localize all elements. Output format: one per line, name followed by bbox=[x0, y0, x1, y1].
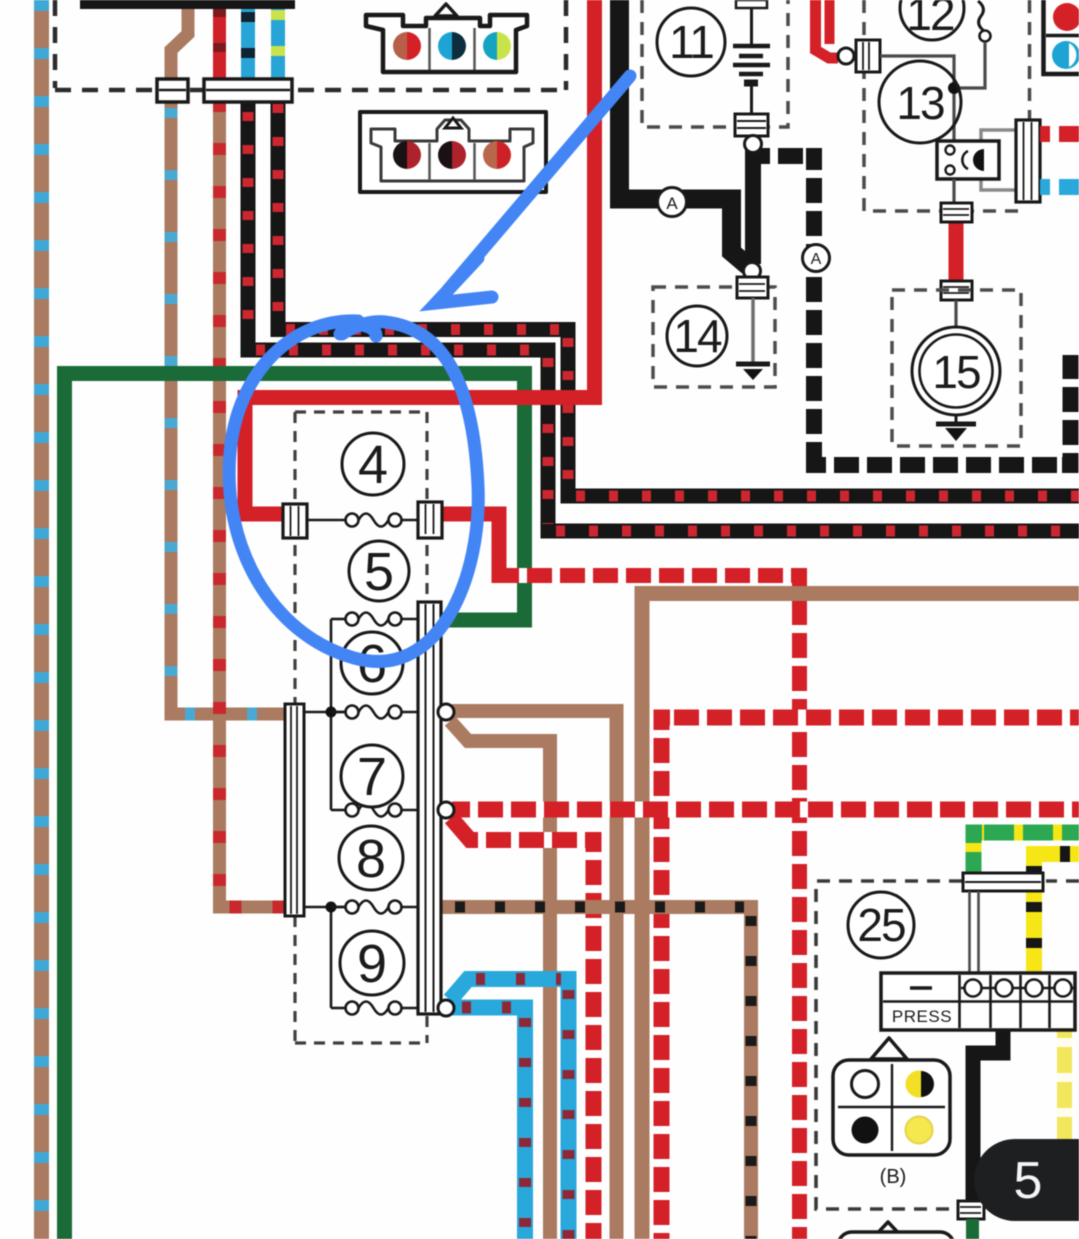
inline connector (large) on boundary bbox=[204, 79, 292, 102]
lamp white (B top-left) bbox=[852, 1071, 879, 1098]
wire black/red B (outer L, to long horizontal run y523) bbox=[248, 95, 1079, 531]
pin C1-1 red/brown bbox=[393, 32, 421, 60]
svg-text:PRESS: PRESS bbox=[892, 1007, 952, 1026]
component circle 6 bbox=[341, 632, 403, 694]
wire brown/black from fuse bus (down right) bbox=[440, 907, 751, 1239]
battery 11 top lead connector bbox=[736, 0, 767, 8]
pin C1-3 blue/yellow-green bbox=[483, 32, 511, 60]
wire black/white checkered (from node to right edge, up) bbox=[760, 156, 1071, 465]
lamp black (B bottom-left) bbox=[852, 1117, 879, 1144]
wire black (25 block to lower connector) bbox=[973, 1030, 1003, 1202]
crimp connector (13 lower) bbox=[941, 203, 972, 222]
crimp connector (15 upper) bbox=[941, 281, 972, 300]
fuse F4 element bbox=[307, 514, 418, 527]
switch 12 lever bbox=[978, 1, 991, 42]
lamp yellow (B bottom-right) bbox=[906, 1117, 933, 1144]
svg-text:12: 12 bbox=[906, 0, 954, 40]
pin C2-1 black/red bbox=[393, 141, 421, 169]
wire dark-green stub (bottom edge) bbox=[966, 1219, 979, 1239]
node circle (junction above 14) bbox=[744, 263, 761, 280]
fuse block left connector bbox=[285, 704, 304, 916]
wire brown (top bar to fuse-block upper pin) bbox=[171, 0, 288, 714]
pin blue/white (top-right connector) bbox=[1052, 41, 1079, 69]
lamp yellow/black (B top-right) bbox=[906, 1071, 935, 1098]
triangle marker above (B) box bbox=[871, 1038, 907, 1059]
fuse box dashed border bbox=[295, 412, 427, 1043]
component circle 15 (double) bbox=[912, 327, 1000, 415]
fuse F6 element bbox=[331, 706, 418, 719]
svg-text:5: 5 bbox=[364, 542, 394, 602]
inline connector (small) on boundary bbox=[157, 79, 188, 102]
component circle 11 bbox=[657, 8, 725, 76]
svg-text:8: 8 bbox=[356, 829, 386, 889]
wire black/red A (inner L, to long horizontal run y497) bbox=[278, 95, 1079, 496]
terminal circle row 7 bbox=[438, 802, 454, 818]
connector C1 (3-pin, mating half) bbox=[366, 4, 527, 72]
ground lead 14 bbox=[751, 298, 755, 362]
svg-text:14: 14 bbox=[673, 310, 722, 362]
wire blue/white (relay out right) bbox=[1040, 179, 1079, 195]
dashed box components 12/13 bbox=[864, 0, 1030, 211]
svg-text:15: 15 bbox=[932, 346, 980, 398]
wire red/dark-red (top segment) bbox=[213, 0, 226, 86]
wire brown (right horizontal, down) bbox=[642, 594, 1079, 1239]
ground symbol 14 bbox=[736, 364, 770, 380]
battery 11 symbol bbox=[733, 8, 770, 114]
dashed box component 14 bbox=[653, 287, 775, 387]
connector strip (right of relay) bbox=[1016, 120, 1040, 202]
crimp connector (bottom, below 25) bbox=[958, 1201, 984, 1219]
wire from bullet to switch and relay bbox=[880, 42, 985, 140]
wire blue/dark-red 2 from fuse 9 terminal bbox=[452, 1008, 525, 1239]
svg-text:(B): (B) bbox=[880, 1166, 907, 1188]
pin C2-3 red/brown bbox=[483, 141, 511, 169]
component circle 8 bbox=[339, 826, 403, 890]
wire blue/black (top segment) bbox=[241, 0, 255, 86]
node circle (battery to black wire) bbox=[745, 136, 762, 153]
ground symbol 15 bbox=[936, 415, 976, 441]
terminal circle row 6 bbox=[438, 704, 454, 720]
dashed box component 25 bbox=[816, 881, 1079, 1209]
svg-text:25: 25 bbox=[857, 899, 905, 951]
wire brown 2 from fuse 6 terminal (jogged) bbox=[450, 721, 550, 1239]
wire gray relay to crimp bbox=[952, 179, 955, 205]
svg-text:11: 11 bbox=[669, 16, 713, 68]
component circle 7 bbox=[341, 745, 403, 807]
dash symbol in 25 block bbox=[910, 986, 932, 990]
wire red/white (relay out right) bbox=[1040, 126, 1079, 142]
pin C2-2 black/red bbox=[438, 141, 466, 169]
crimp connector below battery bbox=[735, 114, 768, 136]
harness boundary dashed line (top-left) bbox=[55, 0, 567, 90]
wire red (13 to 15) bbox=[949, 218, 964, 284]
crimp connector (14) bbox=[737, 277, 768, 298]
component circle 12 bbox=[900, 0, 964, 40]
wire black thick (battery negative run) bbox=[620, 0, 749, 266]
wire yellow/black (feed to 25 block) bbox=[1034, 854, 1079, 973]
node A (ring terminal on black run) bbox=[658, 188, 687, 217]
25 pressure-switch block bbox=[881, 973, 1075, 1030]
component circle 4 bbox=[342, 433, 404, 495]
wire red/white (fuse 4 output, down right side) bbox=[437, 514, 800, 1239]
component circle 13 bbox=[879, 61, 961, 143]
wire blue/yellow-green (top segment) bbox=[271, 0, 285, 86]
wire red/white (lower long horizontal, down) bbox=[662, 718, 1079, 1239]
triangle marker (bottom edge, cut) bbox=[872, 1222, 904, 1239]
fuse-box internal bracket wire (rows 5-7) bbox=[304, 619, 346, 810]
wire brown/red (left vertical to fuse-block lower pin) bbox=[220, 86, 289, 907]
wire red (feed to fuse 4) bbox=[245, 0, 595, 514]
wire red/white 2 from fuse 7 terminal (jogged, down) bbox=[451, 818, 594, 1239]
dashed box component 15 bbox=[892, 290, 1021, 446]
ground lead into 15 bbox=[954, 300, 957, 330]
svg-text:5: 5 bbox=[1014, 1152, 1043, 1210]
svg-text:A: A bbox=[811, 251, 822, 268]
top-right corner connector bbox=[1044, 0, 1079, 74]
svg-text:4: 4 bbox=[358, 435, 388, 495]
wire yellow/white (below 25 block) bbox=[1057, 1030, 1072, 1140]
junction dot row 8 bbox=[326, 902, 337, 913]
component circle 5 bbox=[349, 541, 409, 602]
relay housing (gray) bbox=[981, 130, 1021, 190]
fuse-box internal bracket wire (rows 8-9) bbox=[304, 907, 346, 1008]
component circle 25 bbox=[848, 892, 914, 958]
wire black (battery node down to 14) bbox=[745, 150, 761, 264]
fuse F7 element bbox=[331, 804, 418, 817]
wire brown/blue left edge bbox=[34, 0, 49, 1239]
top component black bar (cut off) bbox=[80, 0, 295, 9]
fuse 4 left terminal bbox=[283, 504, 307, 538]
fuse block bus bar (right) bbox=[418, 602, 441, 1014]
connector bar above 25 block bbox=[963, 873, 1043, 891]
pin C1-2 blue/black bbox=[438, 32, 466, 60]
svg-text:A: A bbox=[666, 194, 678, 213]
component circle 14 bbox=[667, 306, 727, 366]
fuse F5 element bbox=[331, 613, 418, 626]
bullet connector (12 circuit) bbox=[838, 40, 880, 72]
svg-text:7: 7 bbox=[357, 747, 387, 807]
fuse F9 element bbox=[331, 1002, 418, 1015]
fuse F8 element bbox=[331, 901, 418, 914]
wire red doubled (top feed into 12) bbox=[816, 0, 839, 58]
dashed box component 11 bbox=[642, 0, 788, 127]
double lead connector-to-block bbox=[970, 891, 979, 974]
annotation blue arrow bbox=[436, 76, 630, 303]
wire dark-green (main feed to fuse 5) bbox=[65, 374, 525, 1239]
fuse 4 right terminal bbox=[418, 502, 442, 538]
component circle 9 bbox=[340, 931, 404, 995]
terminal circle row 9 bbox=[438, 1000, 454, 1016]
junction dot 13 bbox=[948, 82, 960, 94]
relay 13 contact box bbox=[937, 141, 999, 179]
indicator box (B) bbox=[833, 1060, 950, 1155]
connector C2 (3-pin, double outline) bbox=[360, 112, 546, 192]
pin red (top-right connector) bbox=[1053, 3, 1079, 31]
junction dot row 6 bbox=[326, 707, 337, 718]
annotation blue circle bbox=[229, 321, 478, 662]
svg-text:13: 13 bbox=[896, 77, 944, 129]
page bubble 5 bbox=[974, 1139, 1079, 1221]
indicator box (bottom edge, cut) bbox=[838, 1232, 954, 1239]
svg-text:9: 9 bbox=[357, 934, 387, 994]
25 block contact circles bbox=[961, 980, 1075, 997]
wire blue/dark-red 1 from fuse 9 terminal (jogged up) bbox=[450, 979, 569, 1239]
wire brown 1 from fuse 6 terminal bbox=[452, 711, 617, 1239]
wire green/yellow (feed to 25) bbox=[974, 833, 1079, 875]
node A (ring terminal on checkered wire) bbox=[803, 245, 830, 272]
wire red/white 1 from fuse 7 terminal bbox=[452, 802, 1079, 818]
